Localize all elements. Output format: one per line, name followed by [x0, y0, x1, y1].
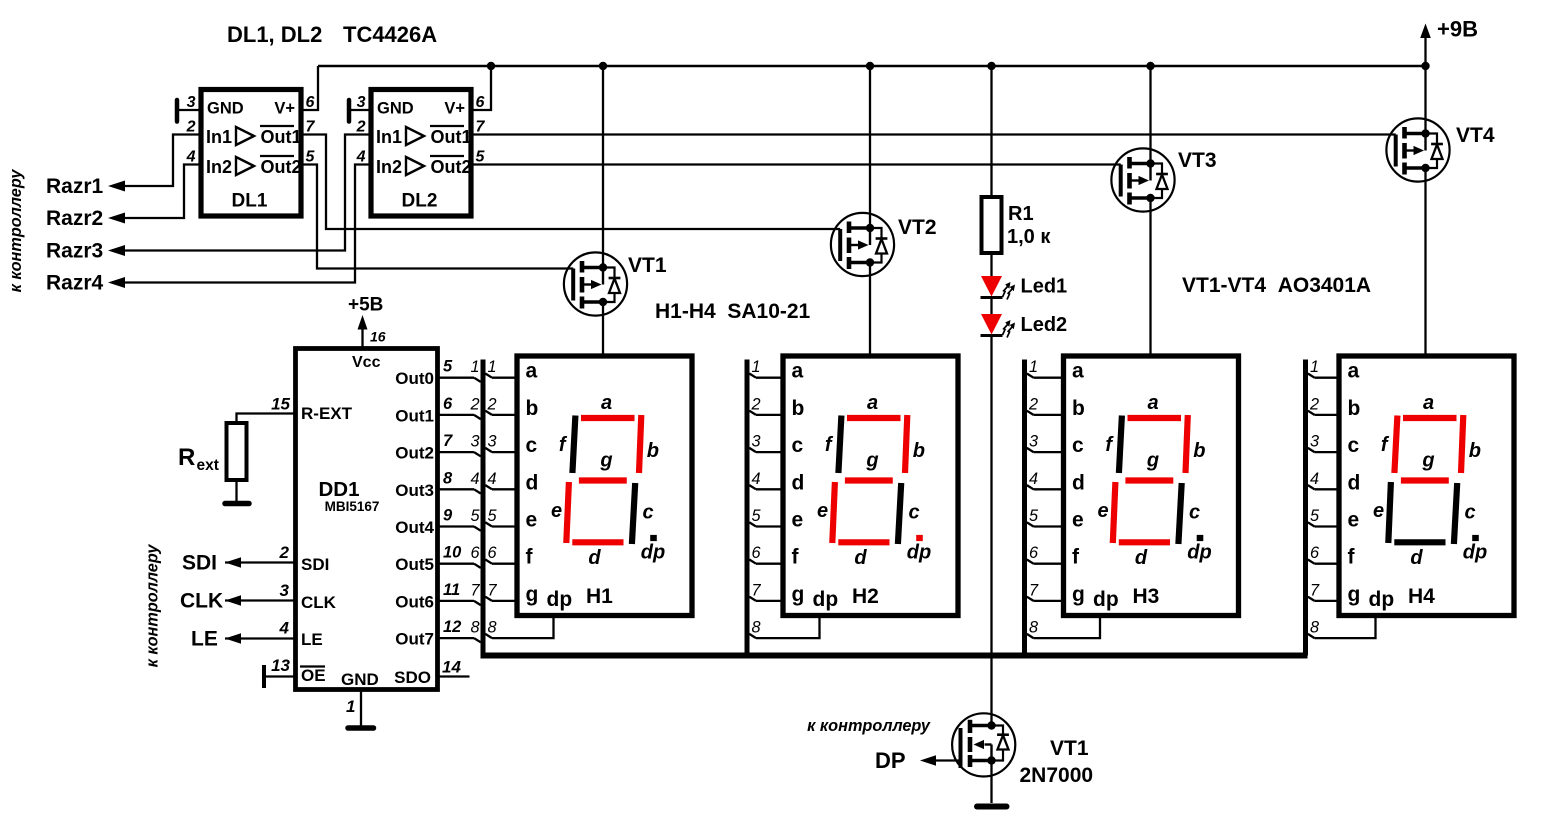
svg-text:H2: H2 [852, 585, 879, 608]
svg-text:H3: H3 [1133, 585, 1160, 608]
svg-text:Out2: Out2 [395, 444, 434, 463]
svg-text:b: b [526, 397, 539, 420]
svg-text:d: d [792, 471, 805, 494]
svg-text:7: 7 [488, 581, 498, 599]
svg-text:к контроллеру: к контроллеру [144, 544, 162, 668]
svg-text:b: b [647, 440, 659, 462]
svg-text:ext: ext [197, 457, 219, 474]
svg-text:4: 4 [279, 619, 290, 638]
svg-text:DL2: DL2 [402, 191, 438, 212]
svg-text:3: 3 [488, 433, 497, 451]
svg-text:11: 11 [443, 581, 460, 599]
svg-text:c: c [642, 502, 653, 524]
svg-text:e: e [526, 509, 538, 532]
svg-text:5: 5 [752, 507, 762, 525]
svg-text:к контроллеру: к контроллеру [807, 717, 931, 735]
svg-text:2: 2 [1309, 395, 1319, 413]
svg-text:3: 3 [470, 433, 479, 451]
svg-text:a: a [601, 392, 612, 414]
svg-text:VT1: VT1 [1050, 737, 1089, 760]
svg-text:g: g [599, 450, 612, 472]
svg-text:f: f [792, 546, 800, 569]
svg-text:6: 6 [1029, 544, 1039, 562]
svg-text:GND: GND [341, 670, 379, 689]
svg-text:3: 3 [280, 581, 290, 600]
svg-text:In1: In1 [206, 127, 232, 147]
svg-text:15: 15 [271, 395, 290, 414]
svg-text:a: a [867, 392, 878, 414]
svg-text:In2: In2 [376, 157, 402, 177]
svg-text:SDI: SDI [182, 552, 217, 575]
svg-text:e: e [1373, 500, 1384, 522]
svg-text:Out1: Out1 [431, 127, 472, 147]
svg-text:Razr4: Razr4 [46, 272, 104, 295]
svg-text:VT1-VT4 AO3401A: VT1-VT4 AO3401A [1182, 274, 1371, 297]
svg-text:Led1: Led1 [1021, 276, 1068, 298]
svg-text:Out6: Out6 [395, 592, 434, 611]
svg-text:d: d [588, 547, 601, 569]
svg-text:f: f [1072, 546, 1080, 569]
svg-text:c: c [1348, 434, 1360, 457]
svg-text:dp: dp [1463, 542, 1487, 564]
svg-text:dp: dp [1187, 542, 1211, 564]
svg-text:к контроллеру: к контроллеру [7, 169, 25, 293]
svg-text:c: c [1189, 502, 1200, 524]
svg-text:a: a [1348, 360, 1360, 383]
svg-text:e: e [1348, 509, 1360, 532]
svg-text:b: b [913, 440, 925, 462]
svg-text:CLK: CLK [180, 590, 223, 613]
svg-text:DD1: DD1 [318, 478, 359, 501]
svg-text:6: 6 [488, 544, 498, 562]
svg-text:d: d [1135, 547, 1148, 569]
svg-text:1: 1 [470, 358, 479, 376]
svg-text:Razr2: Razr2 [46, 207, 103, 230]
svg-text:g: g [865, 450, 878, 472]
svg-text:R: R [178, 444, 195, 471]
svg-text:dp: dp [641, 542, 665, 564]
svg-text:Razr1: Razr1 [46, 175, 104, 198]
svg-text:4: 4 [1029, 470, 1038, 488]
svg-text:a: a [792, 360, 804, 383]
svg-text:Out2: Out2 [431, 157, 472, 177]
svg-text:6: 6 [470, 544, 480, 562]
svg-text:a: a [1072, 360, 1084, 383]
svg-text:dp: dp [547, 588, 573, 611]
svg-text:f: f [1348, 546, 1356, 569]
svg-text:b: b [1469, 440, 1481, 462]
svg-text:e: e [551, 500, 562, 522]
svg-text:CLK: CLK [301, 593, 337, 612]
svg-text:VT4: VT4 [1456, 124, 1495, 147]
svg-text:SDI: SDI [301, 555, 329, 574]
svg-text:LE: LE [191, 628, 218, 651]
svg-text:c: c [1072, 434, 1084, 457]
svg-text:DP: DP [875, 748, 906, 773]
svg-text:d: d [1348, 471, 1361, 494]
svg-text:7: 7 [476, 119, 486, 136]
svg-text:Out3: Out3 [395, 481, 434, 500]
svg-text:6: 6 [306, 94, 315, 111]
svg-text:1: 1 [488, 358, 497, 376]
svg-text:7: 7 [1029, 581, 1039, 599]
svg-text:R1: R1 [1008, 203, 1034, 225]
svg-text:2: 2 [487, 395, 497, 413]
svg-text:14: 14 [442, 658, 461, 677]
svg-text:4: 4 [752, 470, 761, 488]
svg-text:1: 1 [1310, 358, 1319, 376]
svg-text:8: 8 [1310, 619, 1319, 637]
svg-text:2: 2 [356, 119, 366, 136]
svg-text:Out1: Out1 [395, 406, 434, 425]
svg-text:SDO: SDO [394, 668, 431, 687]
svg-text:c: c [1464, 502, 1475, 524]
svg-text:7: 7 [1310, 581, 1320, 599]
svg-text:Out2: Out2 [261, 157, 302, 177]
svg-text:e: e [817, 500, 828, 522]
svg-text:8: 8 [1029, 619, 1038, 637]
svg-text:H4: H4 [1408, 585, 1435, 608]
svg-text:1: 1 [346, 697, 355, 716]
svg-text:VT2: VT2 [898, 216, 937, 239]
svg-text:2: 2 [1028, 395, 1038, 413]
svg-text:V+: V+ [444, 100, 465, 118]
svg-text:2N7000: 2N7000 [1020, 764, 1094, 787]
svg-text:dp: dp [813, 588, 839, 611]
svg-text:a: a [1423, 392, 1434, 414]
svg-text:5: 5 [306, 149, 316, 166]
svg-text:d: d [526, 471, 539, 494]
svg-text:1,0 к: 1,0 к [1007, 226, 1051, 248]
svg-text:g: g [1348, 583, 1361, 606]
svg-text:In2: In2 [206, 157, 232, 177]
svg-text:c: c [908, 502, 919, 524]
svg-text:3: 3 [357, 94, 366, 111]
svg-text:Led2: Led2 [1021, 314, 1068, 336]
svg-text:5: 5 [470, 507, 480, 525]
svg-text:OE: OE [301, 666, 326, 685]
svg-text:8: 8 [443, 469, 453, 487]
svg-text:V+: V+ [274, 100, 295, 118]
svg-text:d: d [854, 547, 867, 569]
svg-text:c: c [792, 434, 804, 457]
svg-text:6: 6 [1310, 544, 1320, 562]
svg-text:d: d [1410, 547, 1423, 569]
svg-text:d: d [1072, 471, 1085, 494]
svg-text:5: 5 [488, 507, 498, 525]
svg-text:6: 6 [476, 94, 485, 111]
svg-text:8: 8 [488, 619, 497, 637]
svg-text:GND: GND [207, 100, 244, 118]
svg-text:H1: H1 [586, 585, 613, 608]
svg-text:dp: dp [1369, 588, 1395, 611]
svg-text:3: 3 [1310, 433, 1319, 451]
svg-text:7: 7 [470, 581, 480, 599]
svg-text:e: e [1097, 500, 1108, 522]
svg-text:VT3: VT3 [1178, 149, 1217, 172]
svg-text:GND: GND [377, 100, 414, 118]
svg-text:g: g [526, 583, 539, 606]
svg-text:dp: dp [907, 542, 931, 564]
svg-text:12: 12 [443, 618, 461, 636]
svg-text:b: b [1348, 397, 1361, 420]
svg-text:DL1: DL1 [232, 191, 268, 212]
svg-text:e: e [1072, 509, 1084, 532]
svg-text:5: 5 [1029, 507, 1039, 525]
svg-text:+5В: +5В [348, 295, 383, 316]
svg-text:Out7: Out7 [395, 630, 434, 649]
svg-text:8: 8 [470, 619, 479, 637]
svg-text:b: b [1072, 397, 1085, 420]
svg-text:2: 2 [279, 543, 290, 562]
svg-text:MBI5167: MBI5167 [325, 499, 380, 514]
svg-text:6: 6 [443, 395, 453, 413]
svg-text:R-EXT: R-EXT [301, 404, 353, 423]
svg-text:c: c [526, 434, 538, 457]
svg-text:1: 1 [1029, 358, 1038, 376]
svg-text:b: b [1193, 440, 1205, 462]
svg-text:DL1, DL2: DL1, DL2 [227, 22, 322, 47]
svg-text:g: g [1072, 583, 1085, 606]
svg-text:2: 2 [186, 119, 196, 136]
svg-text:7: 7 [443, 432, 453, 450]
svg-text:7: 7 [306, 119, 316, 136]
svg-text:6: 6 [752, 544, 762, 562]
svg-text:a: a [1147, 392, 1158, 414]
svg-text:g: g [1146, 450, 1159, 472]
svg-text:16: 16 [370, 329, 386, 345]
svg-text:g: g [792, 583, 805, 606]
svg-text:g: g [1421, 450, 1434, 472]
svg-text:5: 5 [443, 358, 453, 376]
svg-text:Out1: Out1 [261, 127, 302, 147]
svg-text:e: e [792, 509, 804, 532]
svg-text:Out0: Out0 [395, 369, 434, 388]
svg-text:7: 7 [752, 581, 762, 599]
svg-text:1: 1 [752, 358, 761, 376]
svg-text:13: 13 [271, 656, 290, 675]
svg-text:4: 4 [356, 149, 366, 166]
svg-text:2: 2 [469, 395, 479, 413]
svg-text:H1-H4 SA10-21: H1-H4 SA10-21 [655, 300, 811, 323]
svg-text:a: a [526, 360, 538, 383]
svg-text:LE: LE [301, 630, 323, 649]
svg-text:b: b [792, 397, 805, 420]
svg-text:2: 2 [751, 395, 761, 413]
svg-text:5: 5 [1310, 507, 1320, 525]
svg-text:4: 4 [470, 470, 479, 488]
svg-text:4: 4 [186, 149, 196, 166]
svg-text:8: 8 [752, 619, 761, 637]
svg-text:Razr3: Razr3 [46, 240, 103, 263]
svg-text:f: f [526, 546, 534, 569]
svg-text:Vcc: Vcc [352, 354, 381, 371]
svg-text:3: 3 [752, 433, 761, 451]
svg-text:Out5: Out5 [395, 555, 434, 574]
svg-text:5: 5 [476, 149, 486, 166]
svg-text:3: 3 [187, 94, 196, 111]
svg-text:dp: dp [1093, 588, 1119, 611]
svg-text:4: 4 [488, 470, 497, 488]
svg-text:3: 3 [1029, 433, 1038, 451]
svg-text:4: 4 [1310, 470, 1319, 488]
svg-text:9: 9 [443, 507, 453, 525]
svg-text:TC4426A: TC4426A [343, 22, 437, 47]
svg-text:10: 10 [443, 544, 462, 562]
svg-text:In1: In1 [376, 127, 402, 147]
svg-text:VT1: VT1 [628, 254, 667, 277]
svg-text:+9В: +9В [1437, 17, 1478, 42]
svg-text:Out4: Out4 [395, 518, 434, 537]
